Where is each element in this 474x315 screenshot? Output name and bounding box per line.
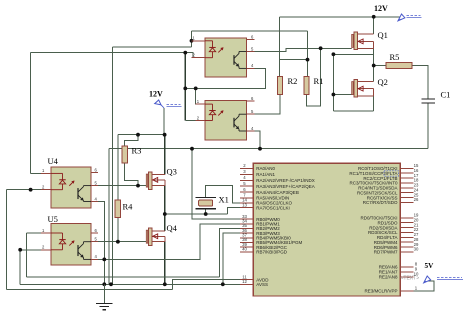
junction — [102, 282, 106, 286]
pin 25 RC6/TX/CK/SS — [367, 192, 419, 200]
wire B left to opto1 pin1 — [112, 46, 191, 48]
pin 33 RB0/PWM0 — [240, 214, 280, 222]
wire U4 pin2 long — [6, 189, 51, 191]
svg-text:RE3/MCLR/VPP: RE3/MCLR/VPP — [364, 289, 397, 294]
svg-text:40: 40 — [242, 247, 247, 252]
junction — [332, 93, 336, 97]
wire U5 pin4 — [91, 258, 104, 260]
wire R1 bottom loop — [307, 48, 321, 106]
wire U4 pin5 to Q3 gate — [91, 185, 146, 187]
wire U4 pin4 drop — [91, 202, 104, 260]
wire U5 pin1 — [27, 232, 51, 234]
pin 18 RC3/T0CKI/T5CKI/INT0 — [349, 178, 419, 186]
svg-text:12V: 12V — [149, 90, 163, 99]
wire Q2 gate — [333, 94, 351, 96]
pin 1 — [41, 228, 51, 233]
wire node to Q2 drain — [373, 66, 375, 82]
svg-text:C1: C1 — [441, 90, 451, 100]
wire crystal bottom lead — [205, 209, 207, 214]
pin 26 RC7/RX/DT/SDO — [363, 197, 419, 205]
junction — [221, 282, 225, 286]
wire opto2 pin5 to R2 bottom — [247, 94, 280, 114]
pin 36 RB3/PWM3 — [240, 228, 280, 236]
junction — [258, 147, 262, 151]
junction — [183, 51, 187, 55]
resistor R5 — [386, 52, 412, 69]
svg-text:R1: R1 — [314, 76, 324, 86]
wire Q4 source to ground rail — [164, 242, 166, 285]
wire rail A — [27, 276, 220, 278]
power flag 12V — [149, 90, 182, 109]
svg-text:12: 12 — [242, 279, 247, 284]
pin 5 RA3/AN3/VREF+/CAP2/QEA — [240, 181, 315, 189]
svg-text:AVSS: AVSS — [256, 282, 268, 287]
junction — [372, 64, 376, 68]
pin 7 RA5/AN5/LVDIN — [240, 193, 289, 201]
wire pin34 long — [104, 224, 240, 260]
junction — [306, 58, 310, 62]
wire opto2 pin4 drop — [247, 131, 261, 149]
wire A horizontal — [30, 52, 185, 54]
svg-text:Q4: Q4 — [167, 223, 178, 233]
power flag 5V — [424, 262, 463, 283]
wire opto2 pin1 riser — [196, 88, 205, 104]
junction — [163, 282, 167, 286]
junction — [332, 52, 336, 56]
wire crystal to pin13 — [227, 208, 240, 214]
wire Q1 drain to 12V — [373, 17, 375, 34]
svg-text:R2: R2 — [288, 76, 298, 86]
optocoupler body U4 — [51, 167, 91, 208]
resistor R3 — [122, 146, 141, 164]
pin 37 RB4/PWM5/KBI0 — [240, 233, 291, 241]
svg-text:RD7/PWM7: RD7/PWM7 — [374, 250, 398, 255]
pin 35 RB2/PWM2 — [240, 223, 280, 231]
svg-text:RA4/AN4/CAP3/QEB: RA4/AN4/CAP3/QEB — [256, 190, 299, 195]
wire Q2 source down — [373, 96, 375, 111]
pin 5 — [91, 180, 98, 185]
wire opto1 pin4 loop — [185, 68, 265, 88]
wire R1 top to opto rail — [307, 31, 309, 77]
transistor Q2 — [352, 77, 388, 97]
wire output return left vertical — [108, 149, 110, 285]
pin 6 RA4/AN4/CAP3/QEB — [240, 187, 299, 195]
junction — [319, 46, 323, 50]
wire R4 inline bottom — [117, 218, 119, 242]
net label highlight FLTA — [384, 171, 399, 176]
junction — [183, 87, 187, 91]
wire output return long — [109, 148, 428, 150]
pin 14 RA6/OSC2/CLKO — [240, 198, 293, 206]
pin 16 RC1/T1OSI/CCP2/FLTA — [349, 168, 419, 176]
svg-text:RA1/AN1: RA1/AN1 — [256, 172, 275, 177]
pin 4 — [247, 63, 255, 68]
wire phase output — [165, 213, 228, 215]
svg-text:X1: X1 — [219, 195, 229, 205]
pin 8 RE0/AN6 — [379, 262, 418, 270]
pin 4 — [91, 254, 98, 259]
wire 12V top rail — [279, 16, 400, 18]
junction — [102, 258, 106, 262]
pin 15 RC0/T1OSO/T1CKI — [358, 163, 419, 171]
junction — [29, 188, 33, 192]
wire pin33 riser — [192, 149, 240, 219]
svg-text:RE2/AN8: RE2/AN8 — [379, 275, 398, 280]
junction — [190, 39, 194, 43]
pin 22 RD3/SCK/SCL — [368, 227, 419, 235]
svg-text:26: 26 — [414, 197, 419, 202]
wire U5 pin5 to Q4 gate — [91, 241, 146, 243]
pin 40 RB7/KBI3/PGD — [240, 247, 288, 255]
junction — [190, 147, 194, 151]
pin 2 — [196, 115, 205, 120]
junction — [109, 282, 113, 286]
wire opto2 pin2 — [185, 120, 205, 122]
svg-text:<TEXT>: <TEXT> — [401, 276, 420, 282]
junction — [18, 248, 22, 252]
pin 1 — [196, 99, 205, 104]
pin 4 — [91, 196, 98, 201]
crystal X1 — [195, 195, 229, 209]
pin 21 RD2/SDI/SDA — [369, 222, 419, 230]
svg-text:13: 13 — [242, 202, 247, 207]
wire R3 top jog — [125, 135, 138, 146]
power flag 12V — [374, 4, 422, 21]
svg-text:RA0/AN0: RA0/AN0 — [256, 166, 275, 171]
pin 2 RA0/AN0 — [240, 163, 276, 171]
pin 5 — [247, 109, 255, 114]
pin 38 RB5/PWM4/KBI1/PGM — [240, 237, 303, 245]
svg-text:U5: U5 — [48, 214, 58, 224]
wire opto1 pin2 jog — [185, 53, 205, 58]
pin 2 — [41, 185, 51, 190]
wire emitter to ground — [103, 259, 105, 284]
wire opto common vertical — [184, 53, 186, 121]
wire R2/R1 top bracket — [279, 59, 307, 61]
wire ground rail C — [6, 288, 172, 290]
pin 2 — [41, 245, 51, 250]
transistor Q1 — [352, 30, 388, 50]
pin 2 — [192, 53, 206, 58]
wire 12V drop to R2 top — [278, 17, 280, 77]
pin 5 — [91, 237, 98, 242]
wire Q1 gate bar entry — [351, 35, 353, 48]
junction — [372, 15, 376, 19]
pin 11 AVDD — [240, 274, 269, 282]
junction — [136, 133, 140, 137]
wire Q1 source to node — [373, 49, 375, 66]
wire U5 pin1 drop — [26, 233, 28, 277]
resistor R2 — [277, 76, 297, 94]
optocoupler body — [205, 38, 247, 77]
wire U4 pin1 — [30, 172, 51, 174]
wire mid node to Q4 drain — [164, 214, 166, 231]
svg-text:Q1: Q1 — [378, 30, 388, 40]
wire B vertical — [111, 47, 113, 284]
resistor R4 — [115, 200, 133, 218]
pin 3 RA1/AN1 — [240, 169, 276, 177]
wire node Q2 gate vertical — [332, 54, 334, 111]
wire 5V to MCLR — [414, 281, 434, 291]
wire U5 pin2 — [20, 249, 51, 251]
optocoupler body — [205, 101, 247, 141]
pin 6 — [91, 168, 98, 173]
svg-text:RC7/RX/DT/SDO: RC7/RX/DT/SDO — [363, 200, 398, 205]
transistor Q4 — [146, 223, 177, 246]
pin 28 RD5/PWM4 — [374, 237, 419, 245]
wire Q3 source to mid node — [164, 186, 166, 214]
pin 6 — [247, 34, 255, 39]
junction — [163, 212, 167, 216]
pin 24 RC5/INT2/SCK/SCL — [357, 187, 419, 195]
pin 1 — [41, 168, 51, 173]
wire opto1 pin1 riser — [191, 31, 193, 47]
pin 1 — [192, 36, 206, 41]
wire A vertical to U4 pin1 — [29, 53, 31, 174]
wire R5 to C1 — [412, 66, 428, 100]
junction — [116, 240, 120, 244]
pin 10 RE2/AN8 — [379, 272, 419, 280]
wire R3/R4 top rail — [118, 134, 165, 136]
pin 4 — [247, 126, 255, 131]
svg-text:R3: R3 — [132, 146, 142, 156]
pin 12 AVSS — [240, 279, 268, 287]
svg-text:RA7/OSC1/CLKI: RA7/OSC1/CLKI — [256, 205, 290, 210]
pin 27 RD4/FLTA — [377, 232, 419, 240]
wire Q1 source spur — [333, 53, 373, 55]
pin 5 — [247, 46, 255, 51]
wire Q2 source loop — [333, 110, 373, 112]
optocoupler body U5 — [51, 224, 91, 266]
svg-text:R5: R5 — [390, 52, 400, 62]
pin 6 — [91, 228, 98, 233]
wire R4 inline top — [117, 135, 119, 200]
wire U4 pin2 drop — [5, 190, 7, 290]
wire C1 bottom — [427, 103, 429, 149]
pin 9 RE1/AN7 — [379, 267, 418, 275]
wire Q3 drain chain top — [164, 135, 166, 175]
wire R3 bottom jog — [125, 163, 138, 186]
resistor R1 — [304, 76, 324, 94]
wire U5 pin2 drop — [19, 250, 21, 284]
pin 6 — [247, 96, 255, 101]
pin 30 RD7/PWM7 — [374, 247, 419, 255]
svg-text:U4: U4 — [48, 156, 59, 166]
svg-text:RA3/AN3/VREF+/CAP2/QEA: RA3/AN3/VREF+/CAP2/QEA — [256, 184, 314, 189]
wire rail A riser to pin35 — [219, 228, 240, 277]
pin 20 RD1/SDO — [377, 217, 419, 225]
pin 19 RD0/T0CKI/T5CKI — [360, 213, 419, 221]
microcontroller U1 PIC18F4431 body — [253, 163, 400, 296]
junction — [136, 184, 140, 188]
pin 4 RA2/AN2/VREF-/CAP1/INDX — [240, 175, 315, 183]
ground — [96, 284, 113, 309]
pin 13 RA7/OSC1/CLKI — [240, 202, 290, 210]
wire opto1 anode rail — [192, 30, 308, 32]
svg-text:RA2/AN2/VREF-/CAP1/INDX: RA2/AN2/VREF-/CAP1/INDX — [256, 178, 315, 183]
junction — [163, 133, 167, 137]
svg-text:5V: 5V — [425, 262, 435, 270]
svg-text:30: 30 — [414, 247, 419, 252]
pin 23 RC4/INT1/SDI/SDA — [358, 183, 419, 191]
pin 17 RC2/CCP1/FLTB — [363, 173, 419, 181]
pin 1 RE3/MCLR/VPP — [364, 286, 417, 294]
svg-text:RB7/KBI3/PGD: RB7/KBI3/PGD — [256, 250, 288, 255]
junction — [194, 87, 198, 91]
pin 29 RD6/PWM6 — [374, 242, 419, 250]
svg-text:Q3: Q3 — [167, 167, 177, 177]
svg-text:R4: R4 — [123, 202, 134, 212]
junction — [204, 212, 208, 216]
wire pin36 drop — [223, 233, 240, 284]
pin 34 RB1/PWM1 — [240, 219, 280, 227]
wire crystal top to pin14 — [206, 186, 240, 203]
wire 12V mid drop — [163, 108, 165, 135]
svg-text:12V: 12V — [374, 4, 388, 13]
capacitor C1 — [422, 90, 451, 104]
pin 39 RB6/KBI2/PGC — [240, 242, 288, 250]
svg-text:Q2: Q2 — [378, 77, 388, 87]
transistor Q3 — [146, 167, 177, 190]
wire ground rail B — [20, 283, 240, 285]
wire node to R5 — [374, 65, 386, 67]
wire AVDD riser — [173, 280, 240, 290]
wire opto1 pin5 to Q1 gate — [247, 48, 352, 51]
